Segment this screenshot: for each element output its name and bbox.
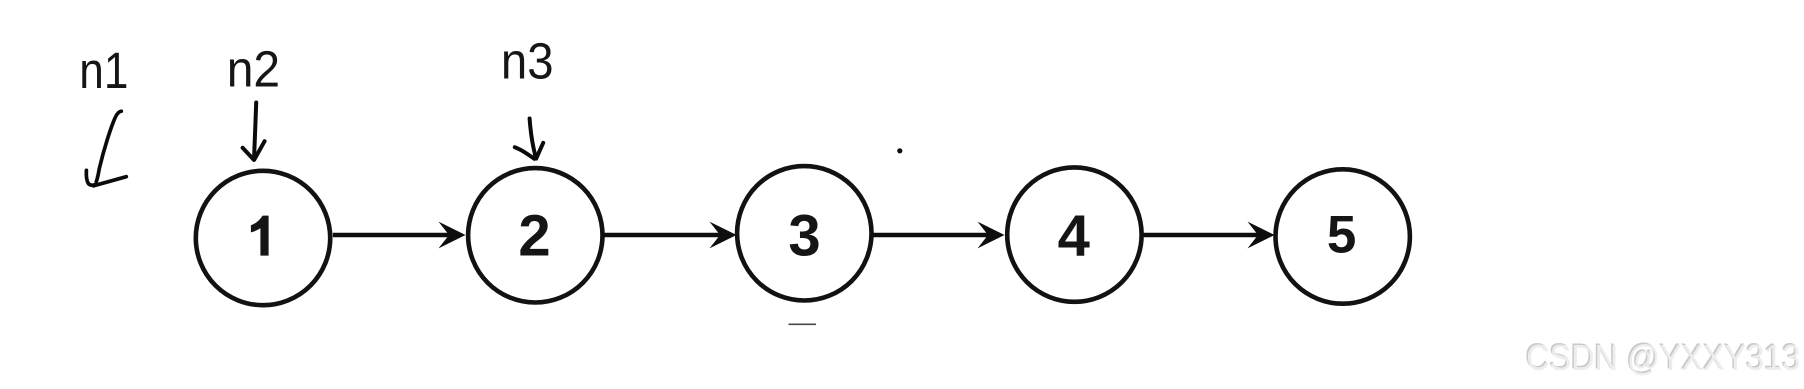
wire/arrow node3 to node4 bbox=[871, 222, 1004, 249]
hand-drawn arrow for n1 bbox=[86, 111, 126, 186]
node 1 circle bbox=[196, 171, 330, 305]
svg-text:2: 2 bbox=[518, 204, 550, 269]
node 4 circle bbox=[1007, 167, 1141, 301]
node 2 circle bbox=[468, 168, 602, 302]
small dot mark above-right of node 3 bbox=[897, 148, 902, 153]
hand-drawn arrow for n3 bbox=[515, 119, 543, 159]
svg-text:3: 3 bbox=[788, 204, 820, 269]
node 1 value label "1" (custom glyph, no foot serif) bbox=[251, 216, 269, 256]
svg-text:n3: n3 bbox=[501, 32, 554, 89]
node 3 circle bbox=[737, 166, 871, 300]
svg-text:n1: n1 bbox=[79, 42, 128, 99]
wire/arrow node4 to node5 bbox=[1142, 222, 1275, 249]
svg-text:4: 4 bbox=[1058, 204, 1090, 269]
wire/arrow node1 to node2 bbox=[333, 222, 466, 249]
svg-text:CSDN @YXXY313: CSDN @YXXY313 bbox=[1526, 337, 1800, 378]
node 5 circle bbox=[1276, 169, 1410, 303]
svg-text:5: 5 bbox=[1327, 206, 1356, 265]
wire/arrow node2 to node3 bbox=[602, 222, 736, 249]
watermark CSDN @YXXY313 bbox=[1525, 336, 1801, 379]
svg-text:n2: n2 bbox=[227, 41, 280, 98]
hand-drawn arrow for n2 bbox=[243, 103, 265, 160]
small underscore mark below node 3 bbox=[789, 323, 817, 325]
